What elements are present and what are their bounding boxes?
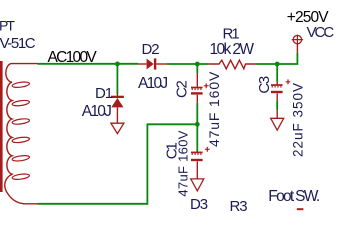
diode D2: [138, 58, 166, 69]
svg-text:47uF 160V: 47uF 160V: [206, 71, 222, 147]
svg-text:R3: R3: [230, 198, 248, 212]
transformer core bar: [0, 61, 3, 192]
wire AC100V top run: [38, 63, 139, 65]
node junction A: [115, 62, 120, 67]
ground arrow (D1): [111, 123, 124, 133]
node junction C: [275, 62, 280, 67]
wire junction B down to C2: [196, 64, 198, 73]
winding crossover loop 1: [12, 81, 30, 88]
wire junction C down to C3: [276, 64, 278, 82]
ground arrow (C1): [191, 179, 204, 191]
resistor R1: [209, 60, 256, 69]
svg-text:VCC: VCC: [307, 24, 335, 41]
svg-text:10k 2W: 10k 2W: [210, 41, 255, 58]
capacitor C1: [191, 147, 210, 179]
svg-text:C2: C2: [173, 80, 190, 98]
svg-text:A10J: A10J: [82, 103, 111, 120]
winding crossover loop 5: [12, 155, 30, 162]
svg-text:47uF 160V: 47uF 160V: [176, 130, 191, 196]
svg-text:V-51C: V-51C: [0, 35, 36, 52]
svg-text:D2: D2: [142, 41, 160, 58]
winding crossover loop 4: [12, 136, 30, 143]
wire R1 to corner via junction C: [256, 53, 297, 64]
wire C2 to junction D: [196, 103, 198, 153]
capacitor C2: [191, 73, 209, 103]
node junction B: [195, 62, 200, 67]
wire D2 to R1: [167, 63, 209, 65]
diode D1: [111, 94, 124, 123]
wire junction A down: [116, 64, 118, 94]
svg-text:D1: D1: [95, 85, 113, 102]
svg-text:AC100V: AC100V: [48, 49, 98, 66]
svg-text:C3: C3: [256, 76, 273, 94]
capacitor C3: [271, 79, 290, 101]
wire C3 to ground arrow: [276, 101, 278, 110]
node junction D: [195, 122, 200, 127]
svg-text:22uF 350V: 22uF 350V: [290, 82, 305, 157]
transformer PT winding: [5, 64, 38, 204]
winding crossover loop 6: [12, 173, 30, 180]
svg-text:R1: R1: [223, 25, 240, 42]
svg-text:D3: D3: [190, 196, 208, 212]
ground arrow (C3): [271, 110, 284, 130]
winding crossover loop 3: [12, 118, 30, 125]
wire junction D left and down to transformer: [38, 124, 198, 204]
svg-text:Foot SW.: Foot SW.: [268, 188, 319, 205]
component top edge (cut off at bottom): [297, 208, 304, 210]
power symbol VCC (+250V): [292, 35, 303, 53]
svg-text:A10J: A10J: [138, 75, 167, 92]
winding crossover loop 2: [12, 100, 30, 107]
